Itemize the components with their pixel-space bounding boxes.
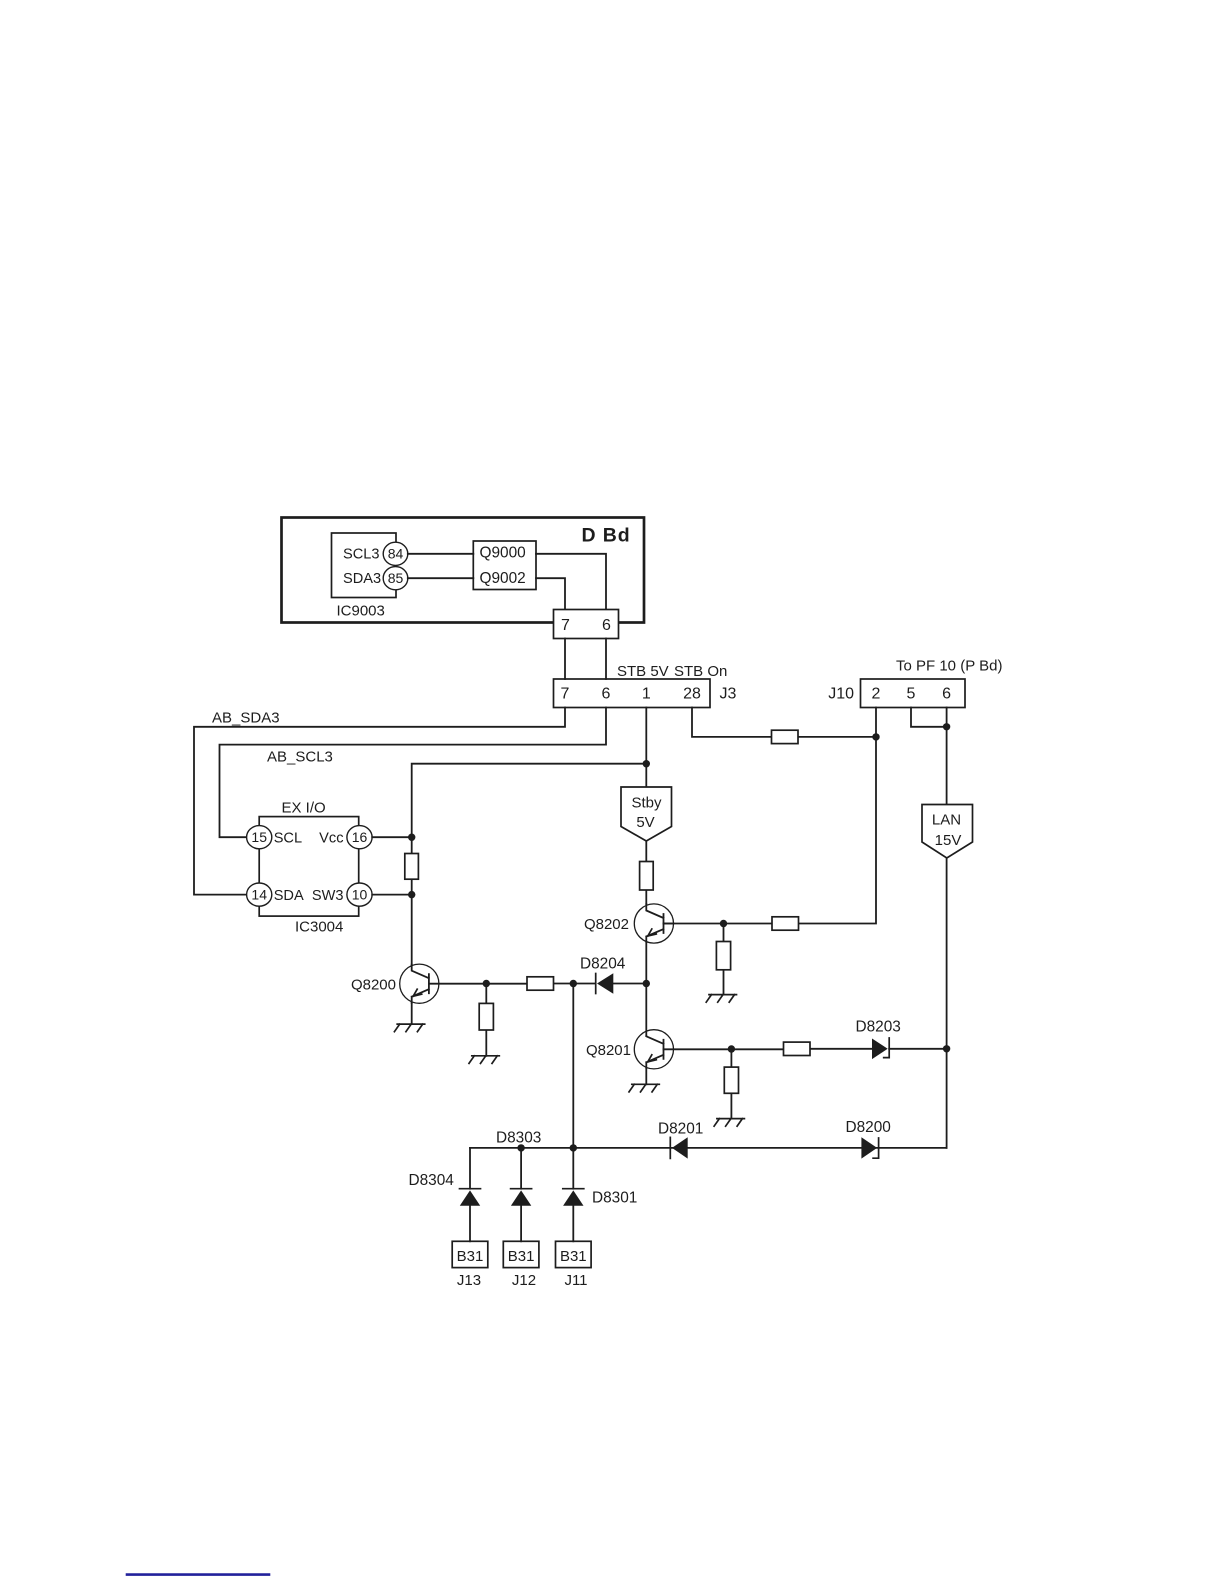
wire Q8202 base lead [664, 923, 674, 925]
svg-text:SW3: SW3 [312, 888, 344, 904]
wire Q9000 to connector pin 6 [536, 554, 606, 610]
wire Stby flag to resistor to Q8202 collector [645, 841, 647, 904]
svg-text:D Bd: D Bd [582, 525, 631, 547]
diode D8301 with lead from rail [563, 1148, 638, 1241]
svg-text:STB 5V: STB 5V [617, 663, 669, 680]
svg-text:10: 10 [352, 886, 368, 902]
wire J10 pin6 down to LAN flag [946, 708, 948, 805]
svg-text:STB On: STB On [674, 663, 727, 680]
connector B31 J12 [503, 1241, 539, 1289]
svg-text:To PF 10 (P Bd): To PF 10 (P Bd) [896, 658, 1002, 675]
D Bd board outline [282, 518, 645, 623]
net flag LAN 15V [922, 805, 973, 859]
IC3004 box [259, 817, 359, 917]
node pin28 junction [872, 733, 879, 740]
svg-text:5: 5 [907, 686, 916, 703]
svg-text:7: 7 [561, 686, 570, 703]
svg-text:D8301: D8301 [592, 1190, 637, 1207]
diode D8201 [658, 1121, 703, 1159]
svg-text:SDA3: SDA3 [343, 571, 381, 587]
footer rule [127, 1573, 269, 1576]
diode D8304 with lead from rail [409, 1148, 481, 1241]
node D8203 cathode to LAN rail [943, 1045, 950, 1052]
wire SCL3 to Q9000 [408, 553, 474, 555]
wire Q8202 base divider down [723, 924, 725, 995]
wire LAN flag down to bottom rail [946, 858, 948, 1148]
svg-text:Vcc: Vcc [319, 830, 343, 846]
pin 16 [347, 826, 372, 849]
svg-text:J12: J12 [512, 1272, 536, 1289]
svg-text:Q8201: Q8201 [586, 1042, 631, 1059]
svg-text:B31: B31 [560, 1248, 587, 1265]
wire tap to IC3004 Vcc rail [412, 764, 647, 965]
wire Q8201 base row [664, 1048, 873, 1051]
svg-text:5V: 5V [636, 814, 654, 831]
svg-text:Q9002: Q9002 [480, 570, 526, 587]
diode D8303 with lead from rail [511, 1148, 532, 1241]
svg-text:B31: B31 [508, 1248, 535, 1265]
resistor R Q8202 base [772, 917, 799, 930]
node rail J12 tap [517, 1144, 524, 1151]
node pin5/pin6 junction [943, 723, 950, 730]
diode D8200 [846, 1119, 891, 1159]
svg-text:14: 14 [251, 886, 267, 902]
pin 84 [383, 542, 408, 565]
wire J10 pin2 down and left to Q8202 base [664, 708, 877, 924]
svg-text:J10: J10 [828, 686, 854, 703]
resistor R Stby [640, 862, 654, 891]
svg-text:D8304: D8304 [409, 1172, 455, 1189]
pin 10 [347, 883, 372, 906]
svg-text:6: 6 [602, 686, 611, 703]
svg-text:IC9003: IC9003 [337, 602, 385, 619]
wire connector to J3 pin6 [605, 639, 607, 680]
svg-text:J13: J13 [457, 1272, 481, 1289]
resistor R Q8201 base series [784, 1042, 811, 1055]
ground Q8200 emitter [394, 1024, 424, 1032]
svg-text:J11: J11 [564, 1272, 587, 1289]
svg-text:LAN: LAN [932, 811, 961, 828]
diode D8203 [856, 1018, 947, 1059]
svg-text:6: 6 [942, 686, 951, 703]
wire Q8200 base row [429, 983, 596, 985]
svg-text:AB_SCL3: AB_SCL3 [267, 748, 333, 765]
svg-text:1: 1 [642, 686, 651, 703]
svg-text:EX I/O: EX I/O [282, 800, 326, 817]
IC3004 pin names [274, 830, 344, 903]
wire Q8202 emitter down to D8204 node [645, 942, 647, 984]
svg-text:85: 85 [388, 570, 404, 586]
wire J10 pin5 to pin6 line [911, 708, 947, 727]
svg-text:28: 28 [683, 686, 701, 703]
resistor R STB-On [772, 730, 799, 743]
wire Q8200 base junction down [485, 984, 487, 1056]
svg-text:16: 16 [352, 829, 368, 845]
connector J10 [828, 679, 965, 708]
svg-text:SCL3: SCL3 [343, 547, 380, 563]
node Q8202 emitter junction [643, 980, 650, 987]
svg-text:D8201: D8201 [658, 1121, 703, 1138]
node STB5V tap [643, 760, 650, 767]
wire connector to J3 pin7 [564, 639, 566, 680]
svg-text:Stby: Stby [631, 795, 662, 812]
ground Q8201 emitter [629, 1084, 659, 1092]
diode D8204 [580, 955, 646, 993]
node rail J11 tap [570, 1144, 577, 1151]
resistor R Q8201 base-gnd [724, 1067, 738, 1093]
svg-text:Q8202: Q8202 [584, 916, 629, 933]
svg-text:J3: J3 [720, 686, 737, 703]
IC9003 [332, 533, 397, 619]
wire D8204 node down to bottom rail [572, 984, 574, 1148]
resistor R Q8200 base series [527, 977, 554, 990]
wire SDA3 to Q9002 [408, 577, 474, 579]
connector B31 J13 [452, 1241, 488, 1289]
node Q8202 base divider [720, 920, 727, 927]
Q9000 Q9002 box [473, 541, 536, 590]
svg-text:SDA: SDA [274, 888, 304, 904]
svg-text:15V: 15V [935, 832, 962, 849]
transistor Q8200 [351, 964, 439, 1003]
net flag Stby 5V [621, 787, 672, 841]
wire Q8200 emitter to ground [411, 1003, 413, 1024]
ground Q8200 divider [469, 1056, 499, 1064]
svg-text:84: 84 [388, 546, 404, 562]
ground Q8201 divider [714, 1119, 744, 1127]
svg-text:D8204: D8204 [580, 955, 626, 972]
connector J3 [554, 679, 737, 708]
connector 7 6 on D Bd edge [554, 610, 619, 639]
svg-text:Q9000: Q9000 [480, 545, 526, 562]
transistor Q8201 [586, 1030, 674, 1069]
wire Q8201 base junction down [730, 1049, 732, 1119]
svg-text:B31: B31 [457, 1248, 484, 1265]
resistor R Q8202 base-gnd [716, 942, 730, 970]
svg-text:7: 7 [561, 617, 570, 634]
svg-text:SCL: SCL [274, 830, 302, 846]
node Vcc junction [408, 834, 415, 841]
svg-text:2: 2 [872, 686, 881, 703]
svg-text:D8303: D8303 [496, 1130, 541, 1147]
wire pin10 SW3 to rail [372, 894, 412, 896]
svg-text:D8203: D8203 [856, 1018, 901, 1035]
svg-text:15: 15 [251, 829, 267, 845]
wire J3 pin28 STB On to J10 pin2 line [692, 708, 876, 737]
transistor Q8202 [584, 904, 674, 943]
wire Q8201 emitter to ground [645, 1068, 647, 1084]
svg-text:AB_SDA3: AB_SDA3 [212, 710, 280, 727]
svg-text:6: 6 [602, 617, 611, 634]
svg-text:Q8200: Q8200 [351, 976, 396, 993]
wire Q9002 to connector pin 7 [536, 578, 565, 609]
node D8204 anode junction [570, 980, 577, 987]
wire down to Q8201 collector [645, 984, 647, 1037]
pin 14 [247, 883, 272, 906]
connector B31 J11 [556, 1241, 592, 1289]
node Q8200 base junction [483, 980, 490, 987]
wire J3 pin7 AB_SDA3 to IC3004 pin14 [194, 708, 565, 895]
node SW3 junction [408, 891, 415, 898]
svg-text:D8200: D8200 [846, 1119, 891, 1136]
wire pin16 Vcc to rail [372, 836, 412, 838]
wire J3 pin1 STB 5V down to Stby flag [645, 708, 647, 788]
pin 85 [383, 567, 408, 590]
wire bottom rail [470, 1147, 947, 1149]
svg-text:IC3004: IC3004 [295, 919, 343, 936]
wire J3 pin6 AB_SCL3 to IC3004 pin15 [220, 708, 607, 838]
resistor R Q8200 base-gnd [479, 1003, 493, 1030]
node Q8201 base junction [728, 1045, 735, 1052]
ground Q8202 divider [706, 995, 736, 1003]
pin 15 [247, 826, 272, 849]
resistor R pull-up [405, 854, 419, 880]
